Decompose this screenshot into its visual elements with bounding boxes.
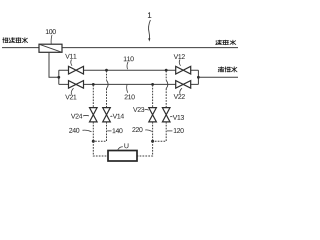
label 110	[124, 56, 134, 61]
label 240	[69, 128, 79, 133]
wire hop over row2 (V13 line)	[166, 80, 168, 88]
label 210	[125, 94, 135, 99]
wire feed/permeate main horizontal line	[2, 47, 238, 49]
leader V23	[145, 108, 149, 111]
wire right connector V12/V22	[197, 70, 199, 84]
wire dashed V14 mid	[106, 89, 108, 108]
label V23	[133, 107, 144, 112]
label 140	[113, 128, 123, 133]
leader V13	[170, 116, 172, 118]
valve V22	[176, 81, 191, 89]
label V12	[174, 54, 185, 59]
unit U box	[108, 151, 137, 162]
text 被処理水 (drawn strokes)	[3, 38, 28, 43]
label V14	[113, 114, 124, 119]
label V24	[71, 114, 82, 119]
leader for 100	[50, 35, 53, 44]
text 透過水 (drawn strokes)	[216, 40, 236, 45]
text 濃縮水 (drawn strokes)	[218, 67, 237, 72]
leader V14	[110, 115, 112, 117]
label V11	[65, 54, 76, 59]
node bottom-right junction	[151, 140, 154, 143]
wire concentrate outlet	[198, 76, 238, 78]
leader V24	[83, 114, 89, 116]
wire dashed V14 lower (line 140)	[93, 122, 106, 141]
leader V22	[180, 88, 182, 94]
leader 120	[167, 130, 173, 132]
wire line 110 (row 1)	[59, 69, 199, 71]
wire dashed V13 lower (line 120)	[153, 122, 167, 141]
valve V11	[69, 66, 84, 74]
label U	[124, 143, 128, 148]
label 120	[174, 128, 184, 133]
node row2 / V24 branch	[92, 83, 95, 86]
node bottom-left junction	[92, 140, 95, 143]
wire line 210 (row 2)	[59, 83, 199, 85]
valve V23	[149, 108, 157, 122]
wire dashed V13 branch upper	[165, 71, 167, 81]
label V21	[65, 95, 76, 100]
leader 210	[127, 85, 128, 93]
wire dashed to unit U left	[93, 141, 108, 156]
leader V21	[71, 88, 73, 94]
label 1	[148, 12, 151, 18]
valve V24	[90, 108, 98, 122]
leader 110	[126, 62, 129, 69]
valve V21	[69, 81, 84, 89]
leader 140	[107, 130, 111, 132]
node row1 / V13 branch	[165, 69, 168, 72]
leader 240	[83, 130, 92, 132]
label 220	[132, 127, 142, 132]
label V22	[174, 94, 185, 99]
valve V14	[103, 108, 111, 122]
node concentrate junction	[197, 76, 200, 79]
leader U	[118, 147, 123, 151]
label 100	[46, 29, 56, 34]
wire module outlet down to valve feed	[49, 52, 59, 77]
leader 220	[145, 130, 152, 132]
wire hop over row2 (V14 line)	[107, 80, 109, 88]
valve V13	[162, 108, 170, 122]
node row1 / V14 branch	[105, 69, 108, 72]
leader arrow for 1	[148, 20, 150, 42]
leader V11	[71, 60, 72, 66]
label V13	[173, 115, 184, 120]
wire dashed V14 branch upper	[106, 71, 108, 81]
leader V12	[179, 60, 180, 66]
valve V12	[176, 66, 191, 74]
node feed junction	[57, 76, 60, 79]
wire dashed V23 lower (line 220)	[152, 122, 154, 141]
wire dashed V23 branch upper	[152, 85, 154, 108]
wire dashed V13 mid	[165, 89, 167, 108]
wire dashed V24 branch upper	[92, 85, 94, 108]
wire dashed to unit U right	[137, 141, 153, 156]
wire left connector V11/V21	[58, 70, 60, 84]
membrane module 100	[39, 44, 62, 52]
wire dashed V24 branch lower (line 240)	[92, 122, 94, 141]
node row2 / V23 branch	[151, 83, 154, 86]
